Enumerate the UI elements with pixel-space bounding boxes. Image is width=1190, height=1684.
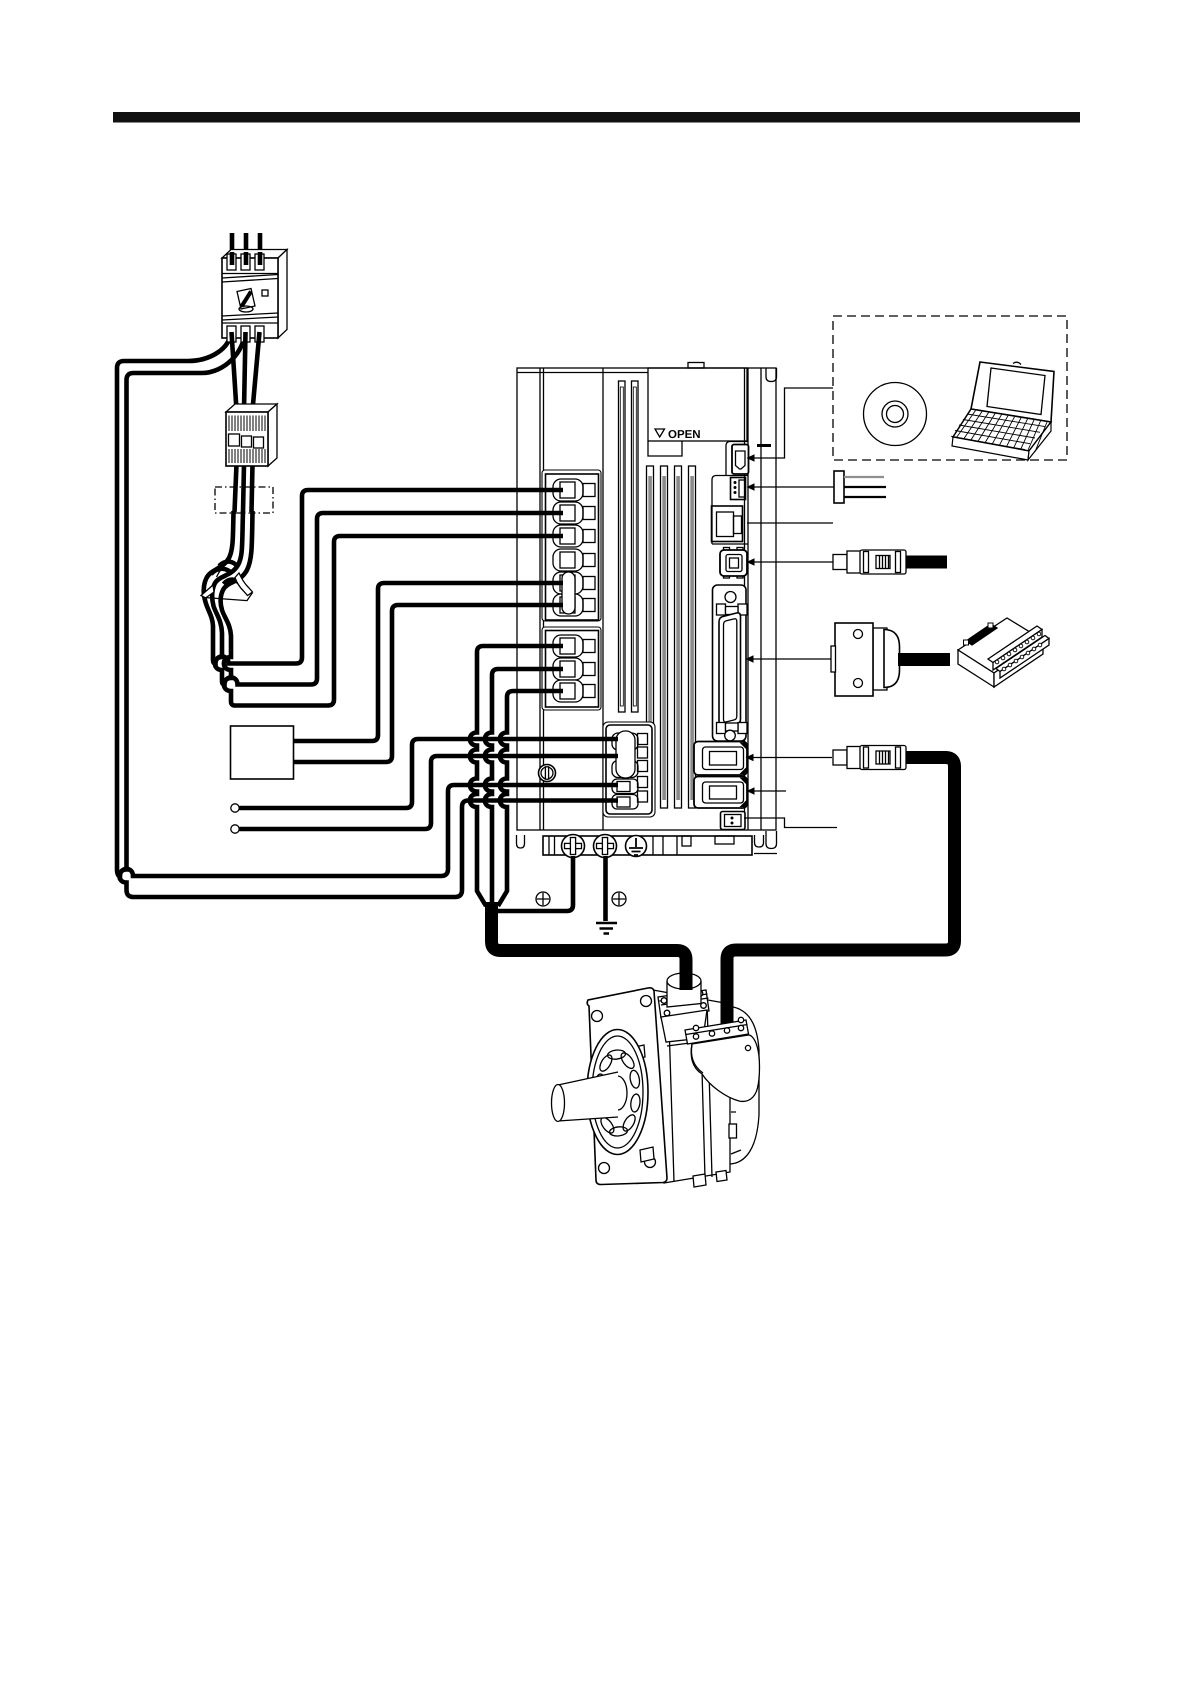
- svg-text:OPEN: OPEN: [668, 429, 701, 441]
